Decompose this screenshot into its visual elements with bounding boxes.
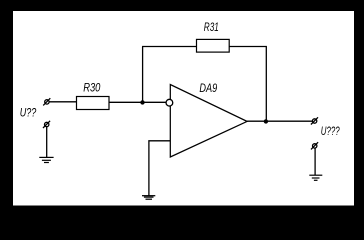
svg-text:U???: U??? bbox=[321, 124, 340, 138]
ground (right, under output port) bbox=[309, 175, 322, 180]
resistor R30 bbox=[77, 97, 110, 110]
wire feedback horizontal to R31 bbox=[142, 46, 196, 48]
op-amp U1 triangle bbox=[170, 85, 247, 158]
svg-text:U??: U?? bbox=[20, 106, 37, 120]
ground (left, under input port) bbox=[39, 157, 53, 162]
port terminal X2 (input lower) bbox=[43, 121, 50, 128]
wire feedback vertical up bbox=[142, 47, 144, 103]
inverting input bubble bbox=[166, 99, 173, 106]
wire input port to R30 bbox=[49, 101, 76, 103]
wire output lower terminal to ground bbox=[314, 148, 316, 175]
wire right corner down to output bbox=[265, 47, 267, 122]
resistor R31 bbox=[197, 39, 230, 52]
svg-text:R30: R30 bbox=[83, 81, 100, 95]
svg-text:R31: R31 bbox=[204, 20, 219, 34]
node junction (output / feedback) bbox=[264, 119, 268, 123]
port terminal X1 (input upper) bbox=[43, 98, 50, 105]
wire input lower terminal to ground bbox=[46, 127, 48, 158]
wire non-inverting input bbox=[149, 141, 170, 196]
port terminal X3 (output upper) bbox=[311, 117, 318, 124]
wire op-amp output to port bbox=[247, 120, 312, 122]
ground (bottom, under non-inverting input) bbox=[142, 196, 155, 200]
wire R30 to op-amp inverting input bbox=[109, 101, 166, 103]
port terminal X4 (output lower) bbox=[311, 142, 318, 149]
svg-text:DA9: DA9 bbox=[199, 81, 217, 95]
wire R31 to right corner bbox=[229, 46, 267, 48]
node junction (feedback tap) bbox=[140, 100, 144, 104]
